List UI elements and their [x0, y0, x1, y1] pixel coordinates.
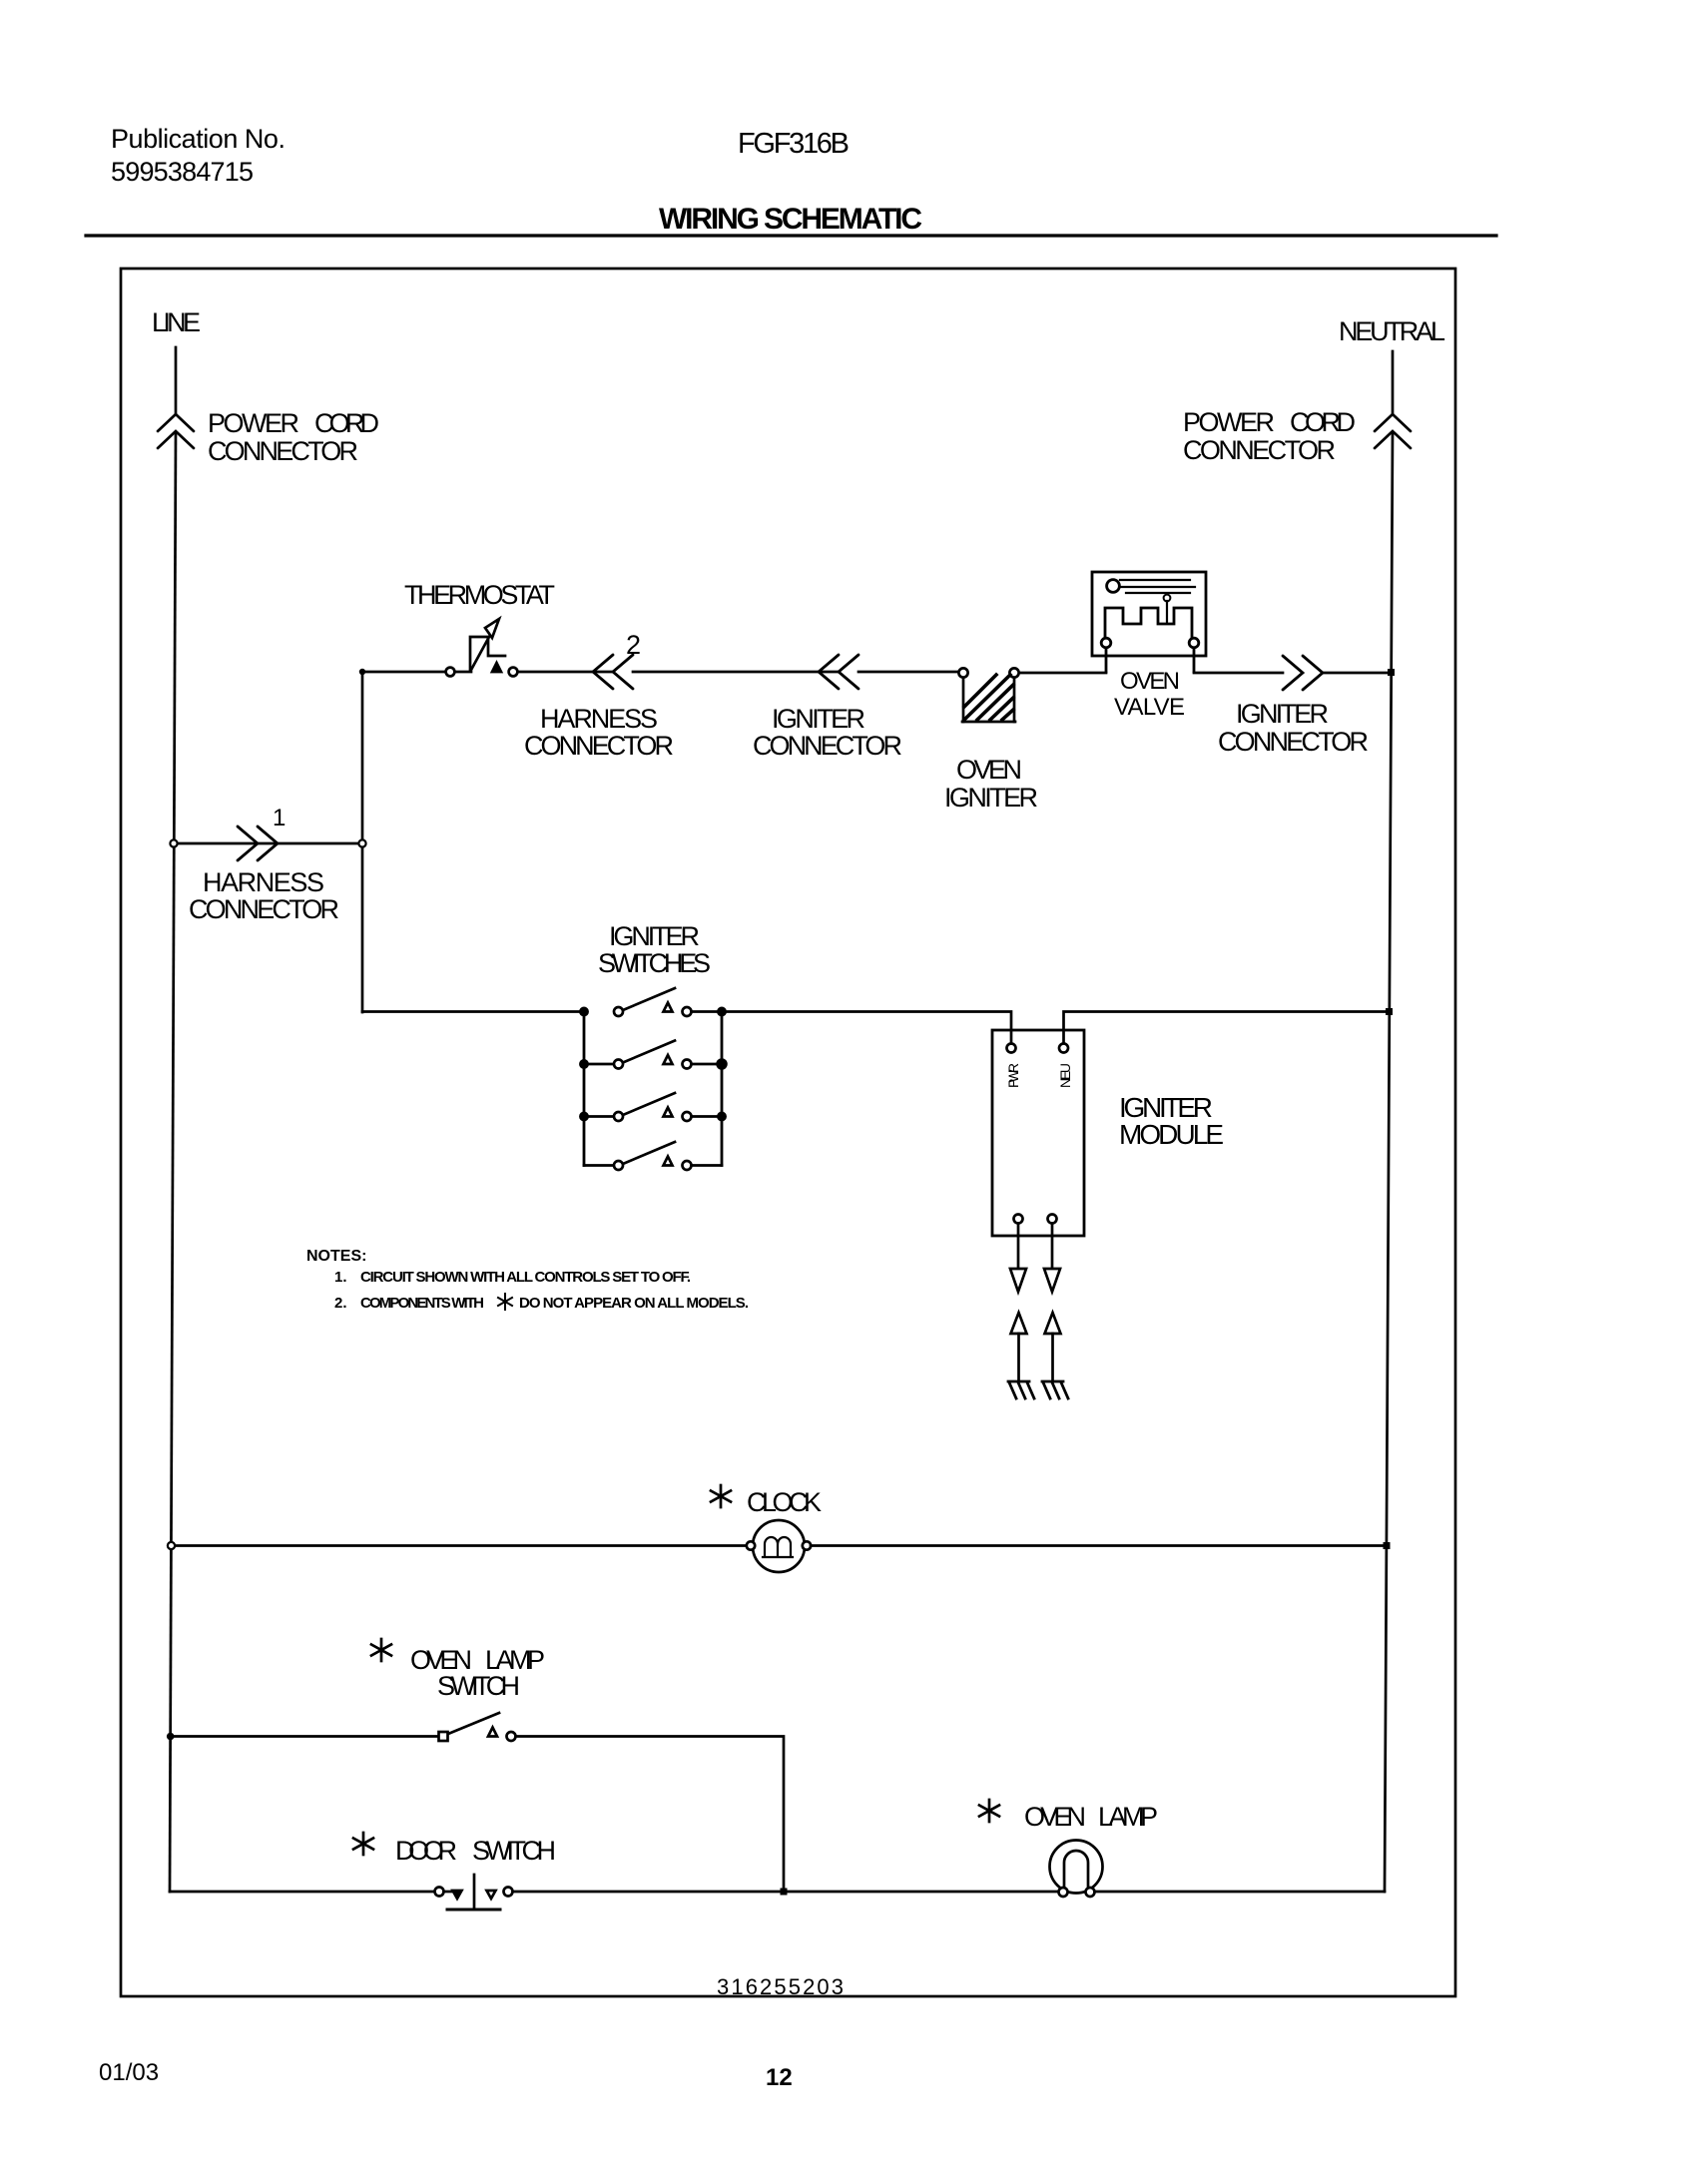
label oven valve [1114, 668, 1185, 721]
wire door switch row to oven lamp [513, 1891, 1060, 1894]
harness connector 2 chevrons [593, 655, 633, 689]
svg-text:IGNITER: IGNITER [1236, 699, 1329, 729]
note 2 [334, 1295, 749, 1312]
oven valve [1092, 572, 1206, 672]
svg-text:CONNECTOR: CONNECTOR [189, 894, 339, 924]
wire clock row left [172, 1544, 748, 1547]
svg-text:OVEN: OVEN [1024, 1802, 1086, 1832]
svg-text:CONNECTOR: CONNECTOR [524, 731, 674, 761]
wire LINE main vertical bus [170, 432, 176, 1892]
svg-text:12: 12 [766, 2064, 793, 2091]
label harness connector 2 [524, 704, 674, 761]
svg-text:LAMP: LAMP [1098, 1802, 1158, 1832]
asterisk for clock [711, 1485, 731, 1507]
svg-text:Publication No.: Publication No. [111, 124, 285, 154]
wire igniter switches left bus [583, 1012, 586, 1166]
wire igniter connector to oven igniter [858, 671, 958, 674]
wire thermostat row left segment [362, 671, 445, 674]
thermostat [446, 619, 518, 676]
svg-text:CONNECTOR: CONNECTOR [1183, 435, 1336, 465]
node junction on neutral at module row [1386, 1008, 1393, 1015]
wire NEUTRAL main vertical bus [1385, 432, 1393, 1892]
node junction at lamp switch branch [781, 1889, 788, 1896]
svg-text:WIRING SCHEMATIC: WIRING SCHEMATIC [659, 203, 922, 236]
svg-text:VALVE: VALVE [1114, 694, 1185, 721]
igniter switch 1 [580, 988, 725, 1016]
spark electrode arrow 2 [1045, 1313, 1061, 1381]
wire harness connector 2 to igniter connector [633, 671, 839, 674]
svg-text:2: 2 [626, 630, 641, 660]
wire thermostat to harness connector 2 [518, 671, 613, 674]
node at harness drop [358, 839, 365, 846]
wire oven lamp to neutral [1095, 1891, 1386, 1894]
svg-text:OVEN: OVEN [956, 755, 1022, 785]
igniter module U1 [992, 1030, 1084, 1236]
wire harness drop vertical [361, 672, 364, 1012]
svg-text:5995384715: 5995384715 [111, 157, 254, 187]
asterisk for door switch [353, 1833, 373, 1855]
svg-text:NEU: NEU [1057, 1063, 1073, 1088]
svg-text:IGNITER: IGNITER [772, 704, 865, 734]
svg-text:DO NOT APPEAR ON ALL MODELS.: DO NOT APPEAR ON ALL MODELS. [519, 1295, 749, 1312]
label power cord connector (neutral side) [1183, 407, 1356, 465]
label oven lamp switch [410, 1645, 545, 1701]
svg-text:OVEN: OVEN [1120, 668, 1180, 695]
svg-text:NEUTRAL: NEUTRAL [1339, 316, 1445, 346]
note 1 [334, 1269, 691, 1286]
svg-text:CLOCK: CLOCK [747, 1487, 822, 1517]
wire igniter switches right bus [721, 1012, 724, 1166]
svg-text:LINE: LINE [152, 307, 201, 337]
igniter connector right chevrons [1283, 656, 1323, 690]
svg-text:MODULE: MODULE [1119, 1119, 1224, 1150]
node junction on neutral at oven row [1388, 669, 1395, 676]
wire LINE vertical drop [175, 347, 178, 414]
spark electrode arrow 1 [1011, 1313, 1027, 1381]
svg-text:HARNESS: HARNESS [203, 867, 324, 897]
label igniter module [1119, 1092, 1224, 1150]
svg-text:316255203: 316255203 [717, 1974, 844, 1999]
door switch [435, 1875, 513, 1910]
oven lamp switch [439, 1713, 516, 1741]
node on line bus at clock row [168, 1542, 175, 1549]
svg-text:POWER: POWER [208, 408, 299, 438]
power cord connector (neutral side) [1375, 414, 1411, 448]
svg-text:NOTES:: NOTES: [306, 1248, 366, 1265]
svg-text:HARNESS: HARNESS [540, 704, 658, 734]
wire clock row right [811, 1544, 1387, 1547]
svg-text:1: 1 [273, 805, 285, 831]
svg-text:COMPONENTS WITH: COMPONENTS WITH [360, 1295, 484, 1312]
wire oven lamp switch row left [171, 1735, 438, 1738]
svg-text:IGNITER: IGNITER [944, 783, 1038, 813]
wire harness connector 1 row [174, 842, 358, 845]
svg-text:CORD: CORD [314, 408, 379, 438]
svg-text:CONNECTOR: CONNECTOR [753, 731, 902, 761]
igniter switch 3 [580, 1093, 725, 1121]
wire switch bus to igniter module PWR [722, 1012, 1011, 1044]
svg-text:CONNECTOR: CONNECTOR [208, 436, 358, 466]
oven igniter [958, 668, 1018, 722]
title underline rule [86, 234, 1496, 237]
label harness connector 1 [189, 867, 339, 924]
svg-text:SWITCHES: SWITCHES [598, 948, 711, 978]
svg-text:1.: 1. [334, 1269, 347, 1286]
wire NEUTRAL vertical drop [1392, 351, 1395, 414]
svg-text:DOOR: DOOR [395, 1836, 457, 1866]
svg-text:SWITCH: SWITCH [472, 1836, 556, 1866]
label igniter connector [753, 704, 902, 761]
chassis ground 1 [1008, 1381, 1034, 1398]
svg-text:POWER: POWER [1183, 407, 1275, 437]
svg-text:PWR: PWR [1005, 1063, 1021, 1088]
node junction at harness drop top [359, 669, 365, 675]
svg-text:CORD: CORD [1290, 407, 1356, 437]
igniter switch 4 [584, 1142, 722, 1170]
node on line bus at lamp switch row [167, 1733, 175, 1741]
svg-text:IGNITER: IGNITER [609, 921, 700, 951]
wire oven lamp switch row right [516, 1737, 785, 1893]
igniter switch 2 [580, 1041, 726, 1069]
harness connector 1 chevrons [238, 826, 278, 860]
wire oven valve to igniter connector right [1194, 672, 1283, 675]
node junction on neutral at clock row [1384, 1542, 1391, 1549]
wire oven igniter to oven valve [1019, 672, 1106, 675]
svg-text:01/03: 01/03 [99, 2059, 159, 2086]
asterisk for oven lamp [979, 1800, 999, 1822]
publication number label [111, 124, 285, 187]
clock motor [747, 1520, 811, 1572]
igniter module output lead 2 [1044, 1224, 1060, 1292]
label oven igniter [944, 755, 1038, 813]
svg-text:SWITCH: SWITCH [437, 1671, 520, 1701]
label power cord connector (line side) [208, 408, 379, 466]
wire igniter connector right to neutral [1323, 672, 1392, 675]
chassis ground 2 [1042, 1381, 1068, 1398]
svg-text:CONNECTOR: CONNECTOR [1218, 727, 1369, 757]
asterisk for oven lamp switch [371, 1639, 391, 1661]
label igniter switches [598, 921, 711, 978]
wire igniter module NEU to neutral bus [1064, 1012, 1390, 1044]
igniter connector chevrons [819, 655, 858, 689]
wire door switch row left [170, 1891, 434, 1894]
svg-text:FGF316B: FGF316B [738, 128, 850, 160]
svg-text:CIRCUIT SHOWN WITH ALL CONTROL: CIRCUIT SHOWN WITH ALL CONTROLS SET TO O… [360, 1269, 691, 1286]
oven lamp [1050, 1841, 1103, 1898]
asterisk in note 2 [498, 1294, 512, 1310]
igniter module output lead 1 [1010, 1224, 1026, 1292]
wire harness drop to switch bus [362, 1010, 584, 1013]
svg-text:THERMOSTAT: THERMOSTAT [404, 580, 555, 610]
svg-text:2.: 2. [334, 1295, 347, 1312]
node on line bus at harness row [170, 839, 177, 846]
power cord connector (line side) [158, 414, 194, 448]
label igniter connector right [1218, 699, 1369, 757]
